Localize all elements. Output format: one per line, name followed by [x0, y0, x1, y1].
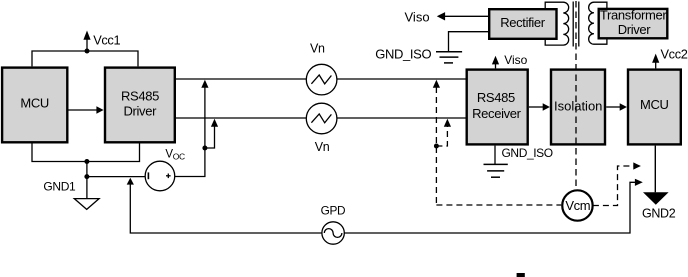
wire Voc output to bus A — [174, 87, 204, 177]
ground GND1 stem — [86, 177, 88, 199]
arrow Vcm to bus A — [433, 80, 440, 88]
wire Rectifier return to GND_ISO — [449, 32, 489, 52]
dashed wire Vcm right run to GND2 — [593, 166, 634, 206]
wire MCU2 to GND2 — [654, 146, 656, 193]
dashed wire Vcm left run — [436, 204, 561, 206]
block Rectifier — [489, 9, 556, 39]
svg-text:GND2: GND2 — [642, 207, 676, 221]
svg-text:Transformer: Transformer — [600, 8, 667, 23]
dashed wire Vcm branch to bus B — [436, 126, 447, 146]
ground GND2 symbol — [643, 192, 669, 205]
node GND1 rail junction dot (upper) — [84, 159, 89, 164]
svg-text:GND1: GND1 — [43, 180, 76, 194]
svg-text:Driver: Driver — [124, 104, 158, 119]
svg-text:Driver: Driver — [618, 22, 652, 37]
arrow Vcm branch to bus B — [444, 119, 451, 127]
arrow Voc branch to bus B — [211, 119, 218, 127]
svg-text:RS485: RS485 — [121, 88, 159, 103]
transformer T1 core line (left) — [572, 2, 574, 47]
block RS485 Receiver — [467, 70, 528, 145]
wire Receiver to Isolation arrow — [529, 103, 550, 111]
svg-text:Vcc1: Vcc1 — [93, 32, 120, 47]
node GND1 junction dot (lower) — [84, 174, 89, 179]
wire bus A (upper differential line, Driver to Receiver) — [176, 78, 466, 80]
svg-text:GND_ISO: GND_ISO — [502, 146, 553, 160]
svg-text:GPD: GPD — [321, 204, 346, 218]
wire GND1 rail to Voc source — [87, 176, 146, 178]
noise source Vn (upper) — [306, 64, 337, 95]
block Isolation — [551, 70, 605, 145]
wire bus B (lower differential line, Driver to Receiver) — [176, 117, 466, 119]
svg-text:MCU: MCU — [20, 95, 49, 110]
svg-text:Vn: Vn — [315, 140, 330, 154]
ground GND1 symbol — [74, 199, 99, 210]
node Vcm branch junction dot — [434, 144, 439, 149]
wire MCU bottom to GND1 rail — [32, 144, 140, 162]
source Vcm — [562, 190, 592, 220]
arrow Voc to bus A — [201, 80, 208, 88]
dashed wire Vcm to bus A — [435, 87, 437, 205]
svg-text:Rectifier: Rectifier — [500, 15, 546, 30]
arrow GPD to GND1 rail — [127, 178, 134, 185]
power Viso arrow at Receiver — [492, 56, 499, 69]
svg-text:Vcc2: Vcc2 — [661, 47, 688, 62]
partial glyph at bottom edge — [517, 273, 525, 277]
node Vcc1 junction dot — [85, 49, 90, 54]
wire Voc branch to bus B — [205, 126, 215, 149]
wire GPD left leg to GND1 rail — [130, 184, 322, 233]
power Vcc1 arrow — [83, 31, 90, 52]
svg-text:Viso: Viso — [405, 10, 430, 25]
block RS485 Driver — [105, 68, 175, 143]
wire Viso output of Rectifier — [445, 15, 489, 17]
isolation barrier dashed line — [575, 1, 577, 190]
ground GND_ISO symbol (at Receiver) — [484, 164, 508, 177]
svg-text:GND_ISO: GND_ISO — [375, 47, 431, 62]
transformer T1 secondary coil — [589, 2, 607, 44]
svg-text:RS485: RS485 — [477, 90, 515, 105]
svg-text:Viso: Viso — [504, 53, 527, 67]
transformer T1 core line (right) — [578, 2, 580, 47]
wire GPD right leg to GND2 — [344, 182, 635, 233]
block MCU U2 — [628, 70, 681, 145]
transformer T1 primary coil — [545, 2, 568, 45]
node Voc branch junction dot — [202, 146, 207, 151]
block Transformer Driver — [599, 9, 668, 38]
wire junction drop — [86, 162, 88, 177]
svg-text:Vn: Vn — [310, 42, 325, 56]
wire MCU to RS485 Driver arrow — [69, 106, 104, 114]
arrow Viso out — [437, 12, 445, 20]
power Vcc2 arrow — [652, 54, 659, 69]
svg-text:Receiver: Receiver — [472, 106, 522, 121]
source GPD — [322, 222, 344, 244]
ground GND_ISO stem at Receiver — [494, 146, 496, 165]
svg-text:Vcm: Vcm — [565, 198, 590, 213]
ground GND_ISO symbol (top) — [436, 52, 462, 63]
wire Isolation to MCU2 arrow — [606, 103, 627, 111]
svg-text:OC: OC — [173, 152, 185, 162]
arrow Vcm to GND2 — [633, 162, 641, 169]
block MCU U1 — [2, 68, 67, 143]
noise source Vn (lower) — [306, 103, 337, 134]
svg-text:MCU: MCU — [640, 97, 669, 112]
source Voc — [145, 161, 175, 191]
wire Vcc1 rail (MCU top to Driver top) — [32, 51, 138, 66]
arrow GPD to GND2 — [635, 179, 643, 186]
svg-text:Isolation: Isolation — [554, 99, 602, 114]
